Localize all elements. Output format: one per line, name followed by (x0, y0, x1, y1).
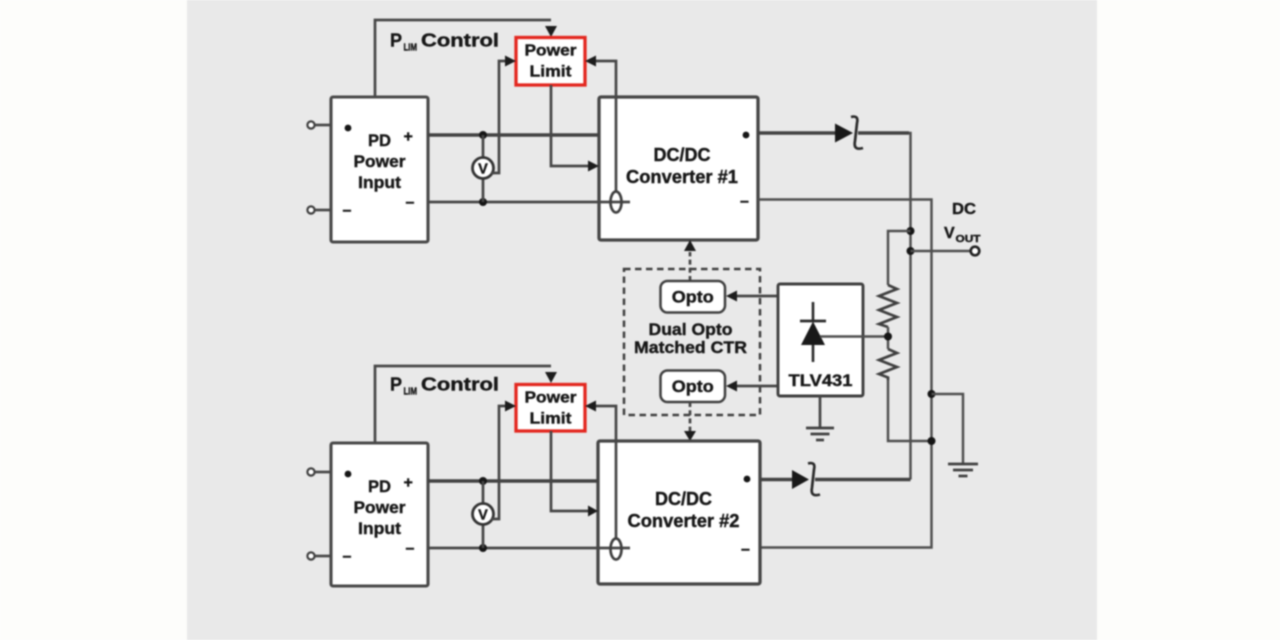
wire bus A to divider top (888, 231, 911, 285)
wire bus B to right ground (932, 394, 964, 463)
wire opto2 to converter 2 (689, 402, 692, 431)
arrow into Power Limit 1 right (585, 56, 596, 67)
svg-text:–: – (406, 540, 415, 557)
label P_LIM Control (top) (390, 31, 499, 54)
wire V2 vertical links (482, 481, 485, 503)
wire - rail converter 1 (428, 201, 630, 204)
svg-text:Dual Opto: Dual Opto (649, 320, 733, 339)
svg-text:OUT: OUT (956, 234, 981, 245)
wire Power Limit 2 control output (551, 431, 588, 511)
arrow into Power Limit 2 top (545, 372, 557, 383)
ground (right) (948, 464, 978, 476)
wire Vout (911, 250, 971, 252)
Power Limit block 1 (red) (516, 38, 585, 86)
svg-text:–: – (741, 541, 750, 558)
TLV431 shunt reference symbol (800, 302, 888, 362)
node V2 bottom (479, 544, 487, 552)
svg-text:DC: DC (952, 201, 976, 218)
arrow into Power Limit 1 left (505, 56, 516, 67)
arrow into Power Limit 2 right (585, 401, 596, 412)
wire converter 1 + output (758, 131, 835, 135)
DC/DC Converter #2 block (598, 441, 760, 584)
svg-text:Input: Input (358, 519, 401, 538)
svg-text:Control: Control (421, 375, 499, 395)
svg-text:TLV431: TLV431 (789, 372, 853, 390)
wire converter 1 - return to bus B and converter 2 - (758, 200, 932, 548)
svg-text:+: + (404, 475, 413, 492)
svg-text:V: V (478, 508, 488, 524)
PD1 pin marks (343, 125, 415, 219)
svg-text:PD: PD (368, 131, 391, 150)
arrow into converter 1 left (588, 161, 599, 172)
current sense loop 2 (611, 539, 622, 560)
wire TLV431 anode to ground (819, 396, 822, 427)
PD1 input terminal (top) (307, 121, 331, 128)
wire current-loop 1 to Power Limit 1 right input (596, 61, 616, 192)
wire TLV431 to opto2 (736, 385, 778, 388)
wire + rail converter 2 (428, 479, 598, 483)
resistor R1 (upper divider) (879, 285, 897, 327)
svg-text:P: P (390, 375, 402, 395)
svg-text:+: + (404, 129, 413, 146)
diode D2 (schottky) (792, 463, 820, 495)
PD1 input terminal (bottom) (307, 206, 331, 213)
svg-text:LIM: LIM (404, 43, 418, 54)
PD2 input terminal (bottom) (307, 552, 331, 559)
node ground tap on bus B (928, 390, 936, 398)
wire diode 2 to output bus A (815, 478, 911, 482)
terminal DC VOUT (971, 247, 980, 256)
ground (TLV431) (806, 428, 834, 440)
wire V1 vertical links (482, 135, 485, 157)
svg-text:Power: Power (525, 43, 577, 60)
opto coupler 2 (661, 371, 726, 403)
wire TLV431 ref to divider (820, 335, 888, 337)
diagram gray panel (187, 0, 1097, 640)
svg-text:V: V (944, 225, 955, 242)
label Dual Opto Matched CTR (634, 320, 747, 357)
svg-text:Limit: Limit (530, 64, 572, 81)
node divider midpoint (884, 333, 892, 341)
node V1 top (479, 131, 487, 139)
current sense loop 1 (611, 192, 622, 213)
opto coupler 1 (661, 281, 726, 313)
wire P_LIM control rail 2 (375, 366, 551, 443)
node divider tap on bus A (907, 227, 915, 235)
wire output bus A (diode OR bus) (909, 133, 911, 480)
wire TLV431 to opto1 (736, 295, 778, 298)
converter 1 output pin marks (743, 132, 750, 139)
wire V1 to Power Limit 1 left input (491, 61, 505, 173)
svg-text:–: – (343, 548, 352, 565)
DC/DC Converter #1 block (599, 97, 758, 240)
svg-text:Control: Control (421, 31, 499, 51)
PD2 pin marks (343, 471, 415, 565)
diode D1 (schottky) (835, 117, 863, 149)
wire - rail converter 2 (428, 547, 630, 550)
svg-text:Converter #1: Converter #1 (626, 167, 738, 187)
node V1 bottom (479, 198, 487, 206)
svg-text:DC/DC: DC/DC (654, 145, 711, 165)
label DC VOUT (944, 201, 981, 245)
node V2 top (479, 477, 487, 485)
svg-text:Limit: Limit (530, 411, 572, 428)
wire + rail converter 1 (428, 133, 599, 137)
arrow into Power Limit 1 top (545, 26, 557, 37)
voltage sensor V2 (473, 504, 494, 525)
svg-text:Power: Power (525, 390, 577, 407)
svg-text:Opto: Opto (672, 377, 714, 396)
svg-text:–: – (740, 193, 749, 210)
wire divider midpoint (887, 327, 889, 349)
arrow into converter 2 top (684, 431, 696, 441)
svg-text:–: – (406, 194, 415, 211)
wire P_LIM control rail 1 (375, 20, 551, 97)
arrow into converter 1 bottom (684, 240, 696, 251)
label P_LIM Control (bottom) (390, 375, 499, 398)
dashed box Dual Opto Matched CTR (624, 269, 760, 415)
PD Power Input block 1 (331, 97, 428, 242)
wire Power Limit 1 control output (551, 85, 588, 166)
svg-text:DC/DC: DC/DC (655, 489, 712, 509)
wire diode 1 to output bus A (858, 131, 909, 135)
svg-text:Opto: Opto (672, 288, 714, 307)
wire V2 to Power Limit 2 left input (491, 406, 505, 519)
svg-text:–: – (343, 202, 352, 219)
svg-text:LIM: LIM (404, 387, 418, 398)
svg-text:Matched CTR: Matched CTR (634, 338, 747, 357)
voltage sensor V1 (473, 158, 494, 179)
arrow into Power Limit 2 left (505, 401, 516, 412)
arrow into opto2 (726, 381, 737, 392)
PD2 input terminal (top) (307, 468, 331, 475)
TLV431 block U1 (778, 284, 863, 396)
svg-text:Power: Power (354, 152, 406, 171)
svg-text:V: V (478, 162, 488, 178)
wire converter 2 + output (760, 478, 792, 482)
node divider bottom on bus B (928, 437, 936, 445)
node Vout terminal on bus A (907, 247, 915, 255)
svg-text:Power: Power (354, 498, 406, 517)
wire current-loop 2 to Power Limit 2 right input (596, 406, 616, 538)
wire divider bottom to bus B (888, 380, 932, 441)
wire opto1 feedback to converter 1 (689, 252, 692, 281)
arrow into opto1 (726, 291, 737, 302)
arrow into converter 2 left (588, 506, 598, 517)
converter 2 output pin marks (744, 476, 751, 483)
resistor R2 (lower divider) (879, 349, 897, 380)
PD Power Input block 2 (331, 443, 428, 586)
svg-text:Input: Input (358, 173, 401, 192)
svg-text:PD: PD (368, 477, 391, 496)
Power Limit block 2 (red) (516, 385, 585, 432)
svg-text:P: P (390, 31, 402, 51)
svg-text:Converter #2: Converter #2 (628, 511, 740, 531)
